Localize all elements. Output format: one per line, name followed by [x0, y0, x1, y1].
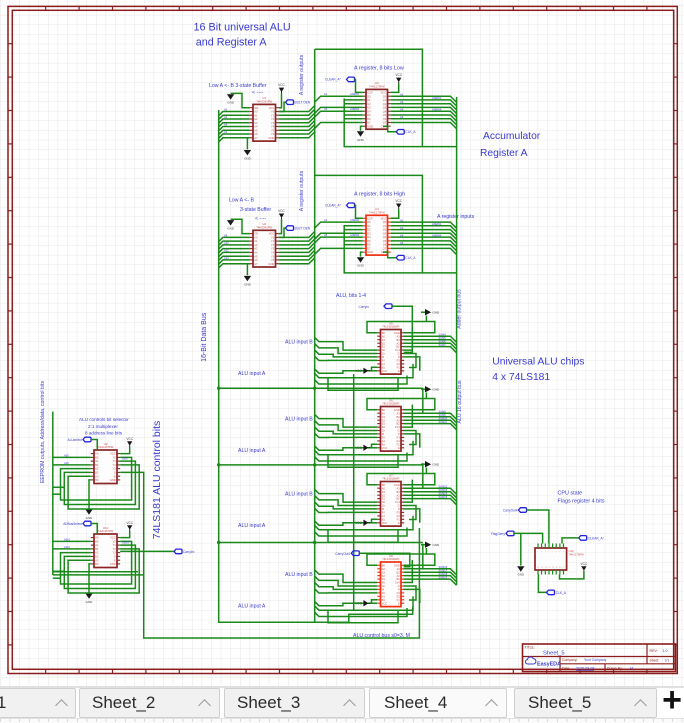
label A register — [354, 65, 404, 71]
svg-text:VCC: VCC — [382, 446, 388, 450]
net port CarryOut4 — [335, 551, 410, 567]
net port BU2T.OEN — [279, 226, 311, 238]
svg-text:GND: GND — [227, 101, 235, 105]
svg-text:A0: A0 — [382, 486, 386, 490]
svg-text:74HC273PW: 74HC273PW — [369, 84, 385, 88]
svg-text:A2: A2 — [254, 243, 258, 247]
svg-text:A5: A5 — [324, 233, 328, 237]
wire output bundle — [391, 222, 457, 255]
wire carry chain 3 — [217, 541, 423, 544]
svg-text:GND: GND — [86, 600, 94, 604]
svg-text:A1: A1 — [382, 362, 386, 366]
svg-text:GND: GND — [433, 388, 441, 392]
gnd flag — [85, 480, 93, 520]
svg-text:GND: GND — [268, 136, 274, 140]
wire sum outputs — [404, 569, 457, 586]
vcc flag — [355, 600, 377, 607]
wire box A high — [315, 175, 423, 273]
svg-text:S3: S3 — [382, 490, 386, 494]
svg-text:B3: B3 — [397, 570, 401, 574]
svg-text:SUM7: SUM7 — [439, 343, 447, 347]
svg-text:Y0: Y0 — [271, 236, 275, 240]
svg-text:Cn: Cn — [382, 352, 386, 356]
svg-text:D4: D4 — [367, 109, 371, 113]
svg-text:S0: S0 — [382, 348, 386, 352]
svg-text:ANEW4: ANEW4 — [350, 107, 360, 111]
net labels input — [224, 108, 228, 135]
svg-text:A1: A1 — [254, 239, 258, 243]
svg-text:B3: B3 — [397, 338, 401, 342]
svg-text:E: E — [398, 369, 400, 373]
svg-text:VCC: VCC — [382, 601, 388, 605]
svg-text:74LS181DWR: 74LS181DWR — [382, 402, 399, 406]
svg-text:GND: GND — [244, 157, 252, 161]
svg-text:SUM14: SUM14 — [439, 491, 448, 495]
gnd flag flags — [517, 533, 525, 576]
svg-text:D3: D3 — [367, 106, 371, 110]
svg-text:B0: B0 — [382, 331, 386, 335]
svg-text:SUM15: SUM15 — [439, 495, 448, 499]
svg-text:Cn: Cn — [382, 584, 386, 588]
svg-text:ANEW1: ANEW1 — [432, 96, 442, 100]
3-state buffer U2 — [250, 222, 279, 267]
svg-text:CLK_A: CLK_A — [556, 591, 567, 595]
svg-text:A0: A0 — [382, 567, 386, 571]
svg-text:A6: A6 — [254, 258, 258, 262]
net labels sum — [439, 484, 448, 498]
svg-text:SUM19: SUM19 — [439, 575, 448, 579]
svg-text:E: E — [398, 601, 400, 605]
svg-text:VCC: VCC — [278, 83, 285, 87]
svg-text:Cn: Cn — [382, 429, 386, 433]
wire left long pair — [53, 572, 144, 575]
svg-text:VCC: VCC — [395, 73, 402, 77]
net port CLK_A — [383, 126, 416, 134]
svg-text:Q3: Q3 — [383, 106, 387, 110]
svg-text:Cn4: Cn4 — [395, 348, 400, 352]
sheet tab 5 — [514, 688, 657, 718]
svg-text:A3: A3 — [95, 474, 99, 478]
svg-text:GND: GND — [227, 227, 235, 231]
wire carry chain 2 — [217, 463, 423, 466]
svg-text:S0: S0 — [382, 581, 386, 585]
svg-text:74LS181DWR: 74LS181DWR — [382, 325, 399, 329]
net port FlagCarry — [491, 531, 543, 543]
wire bundle buffer1 to A register low — [279, 96, 363, 138]
wire sum outputs — [404, 413, 457, 430]
svg-text:A010: A010 — [64, 537, 71, 541]
svg-text:Flags register 4 bits: Flags register 4 bits — [558, 499, 605, 505]
svg-text:VCC: VCC — [110, 536, 116, 540]
svg-text:CPU state: CPU state — [558, 491, 583, 497]
svg-text:Y1: Y1 — [113, 459, 117, 463]
wire mid bus vertical — [353, 374, 355, 610]
wire right nest — [404, 560, 420, 603]
svg-text:74HC273PW: 74HC273PW — [369, 210, 385, 214]
net port BU1T.OEN — [279, 100, 311, 112]
svg-text:B0: B0 — [95, 540, 99, 544]
svg-text:ALU input B: ALU input B — [285, 572, 313, 578]
wire bundle buffer2 to A register high — [279, 222, 363, 264]
svg-text:A110: A110 — [64, 545, 70, 549]
svg-text:B0: B0 — [382, 563, 386, 567]
svg-text:M: M — [382, 507, 384, 511]
svg-text:A2: A2 — [397, 574, 401, 578]
svg-text:A5: A5 — [254, 128, 258, 132]
svg-text:SUM8: SUM8 — [439, 409, 447, 413]
svg-text:A3: A3 — [397, 486, 401, 490]
svg-text:BU2T.OEN: BU2T.OEN — [295, 226, 311, 230]
wire sum outputs — [404, 488, 457, 505]
svg-text:A1: A1 — [324, 92, 328, 96]
svg-text:Y4: Y4 — [271, 125, 275, 129]
svg-text:A2: A2 — [95, 467, 99, 471]
svg-text:Y1: Y1 — [271, 239, 275, 243]
svg-text:Y6: Y6 — [271, 258, 275, 262]
svg-text:VCC: VCC — [110, 452, 116, 456]
svg-text:2: 2 — [541, 551, 542, 553]
svg-text:B1: B1 — [95, 547, 99, 551]
flags register U16 — [535, 544, 584, 575]
label A register — [354, 191, 405, 197]
svg-text:< ----: < ---- — [252, 90, 264, 96]
net port CLK_A flags — [538, 575, 566, 595]
vcc flag — [355, 445, 377, 451]
label ALU 16 output bus — [457, 380, 463, 423]
label ALU input A — [238, 604, 266, 610]
wire carry chain 1 — [217, 387, 423, 390]
svg-text:G: G — [398, 352, 400, 356]
net labels output — [400, 218, 442, 245]
svg-text:74HC157PW: 74HC157PW — [98, 529, 114, 533]
svg-text:ALU input A: ALU input A — [238, 523, 266, 529]
svg-text:B2: B2 — [397, 577, 401, 581]
svg-text:A2: A2 — [400, 100, 404, 104]
svg-text:GND: GND — [394, 483, 400, 487]
svg-text:CLEAR_A*: CLEAR_A* — [325, 204, 342, 208]
svg-text:ALU input B: ALU input B — [285, 417, 313, 423]
svg-text:2025-08-08: 2025-08-08 — [576, 666, 594, 670]
svg-text:EasyEDA: EasyEDA — [537, 662, 561, 668]
svg-text:2:1 multiplexer: 2:1 multiplexer — [88, 424, 118, 429]
label ALU input A — [238, 523, 266, 529]
wire feedback loops — [61, 541, 140, 593]
svg-text:Universal ALU chips: Universal ALU chips — [492, 356, 584, 367]
wire carry drop — [404, 388, 423, 413]
svg-text:VCC: VCC — [381, 216, 387, 220]
label A register outputs 1 — [299, 54, 305, 95]
svg-text:TITLE:: TITLE: — [525, 646, 535, 650]
svg-text:A5: A5 — [324, 107, 328, 111]
svg-text:A19: A19 — [64, 461, 69, 465]
svg-text:Y1: Y1 — [113, 543, 117, 547]
svg-text:Q1: Q1 — [383, 224, 387, 228]
svg-text:S2: S2 — [382, 493, 386, 497]
svg-text:G: G — [398, 429, 400, 433]
svg-text:A1: A1 — [382, 594, 386, 598]
sheet tab 1 — [0, 688, 76, 718]
net labels — [64, 537, 130, 549]
vcc flag — [355, 520, 377, 527]
wire left stubs — [53, 541, 91, 578]
svg-text:D7: D7 — [367, 247, 371, 251]
svg-text:GND: GND — [268, 262, 274, 266]
svg-text:EEPROM outputs, Address/data,: EEPROM outputs, Address/data, control bi… — [40, 381, 46, 483]
svg-text:CLK_A: CLK_A — [405, 256, 416, 260]
svg-text:B0: B0 — [382, 408, 386, 412]
wire input bundle — [219, 112, 250, 143]
svg-text:ALU input B: ALU input B — [285, 492, 313, 498]
svg-text:SUM17: SUM17 — [439, 568, 448, 572]
vcc flag — [391, 73, 403, 92]
svg-text:OE9: OE9 — [122, 457, 128, 461]
svg-text:D1: D1 — [367, 98, 371, 102]
svg-text:GND: GND — [394, 408, 400, 412]
svg-text:Company:: Company: — [562, 658, 578, 662]
svg-text:10: 10 — [559, 567, 561, 569]
wire feedback loops — [61, 457, 140, 509]
net labels sum — [439, 409, 448, 423]
svg-text:A1: A1 — [382, 514, 386, 518]
svg-text:VCC: VCC — [269, 232, 275, 236]
label A register outputs 2 — [299, 170, 305, 211]
net port CarryIn left — [120, 549, 194, 554]
svg-text:CarryInI: CarryInI — [183, 550, 194, 554]
wire carry drop — [404, 544, 423, 569]
svg-text:VCC: VCC — [355, 369, 362, 373]
svg-text:SUM16: SUM16 — [439, 565, 448, 569]
svg-text:1: 1 — [537, 551, 538, 553]
svg-text:SUM13: SUM13 — [439, 488, 448, 492]
svg-text:GND: GND — [517, 573, 525, 577]
svg-text:S3: S3 — [382, 570, 386, 574]
svg-text:CLR: CLR — [367, 216, 372, 220]
svg-text:8: 8 — [563, 551, 564, 553]
svg-text:VCC: VCC — [382, 521, 388, 525]
svg-text:Y3: Y3 — [271, 247, 275, 251]
svg-text:M: M — [382, 355, 384, 359]
ALU U5 — [377, 321, 404, 374]
svg-text:D2: D2 — [367, 228, 371, 232]
svg-text:GND: GND — [357, 138, 365, 142]
svg-text:5: 5 — [552, 551, 553, 553]
add sheet button — [660, 688, 684, 716]
svg-text:VCC: VCC — [382, 369, 388, 373]
svg-text:S1: S1 — [382, 497, 386, 501]
svg-text:8 address line bits: 8 address line bits — [85, 431, 123, 436]
svg-text:A2: A2 — [397, 341, 401, 345]
svg-text:Q7: Q7 — [383, 247, 387, 251]
svg-text:D3: D3 — [367, 231, 371, 235]
svg-text:S: S — [114, 471, 116, 475]
label ALU input A — [238, 371, 266, 377]
svg-text:Y2: Y2 — [271, 243, 275, 247]
svg-text:SUM6: SUM6 — [439, 339, 447, 343]
wire right nest — [404, 480, 420, 523]
gnd flag — [421, 309, 440, 322]
svg-text:A6: A6 — [400, 115, 404, 119]
svg-text:A09: A09 — [64, 453, 69, 457]
label 16-Bit Data Bus — [201, 312, 208, 362]
svg-text:D6: D6 — [367, 117, 371, 121]
svg-text:A0: A0 — [382, 334, 386, 338]
label ALU input A — [238, 448, 266, 454]
svg-text:A6: A6 — [254, 132, 258, 136]
svg-text:Date:: Date: — [562, 666, 570, 670]
svg-text:A4: A4 — [400, 107, 404, 111]
svg-text:ADBusSelect: ADBusSelect — [63, 522, 82, 526]
svg-text:B1: B1 — [382, 598, 386, 602]
svg-text:Cn4: Cn4 — [395, 500, 400, 504]
gnd flag left — [227, 93, 250, 107]
svg-text:B3: B3 — [397, 490, 401, 494]
svg-text:Q3: Q3 — [383, 231, 387, 235]
svg-text:SUM12: SUM12 — [439, 484, 448, 488]
svg-text:S2: S2 — [382, 418, 386, 422]
svg-text:U16: U16 — [569, 549, 575, 553]
A register U4 — [363, 207, 391, 255]
svg-text:M: M — [630, 666, 633, 670]
wire B inputs — [315, 570, 378, 593]
A register U3 — [363, 81, 391, 129]
svg-text:ALUselect: ALUselect — [67, 438, 82, 442]
svg-text:A2: A2 — [254, 117, 258, 121]
label CPU state — [558, 491, 605, 505]
svg-text:A3: A3 — [254, 121, 258, 125]
svg-text:Adder output bus: Adder output bus — [457, 289, 463, 329]
svg-text:D2: D2 — [367, 102, 371, 106]
svg-text:A0: A0 — [95, 536, 99, 540]
svg-text:GND: GND — [367, 250, 373, 254]
sheet tab 4 — [369, 688, 507, 718]
svg-text:D5: D5 — [367, 113, 371, 117]
wire box A low bottom — [344, 98, 456, 146]
svg-text:16-Bit Data Bus: 16-Bit Data Bus — [201, 312, 208, 362]
label ALU control bus — [353, 633, 410, 639]
gnd flag — [421, 461, 440, 474]
svg-text:9: 9 — [563, 567, 564, 569]
svg-text:Q4: Q4 — [383, 109, 387, 113]
svg-text:G: G — [398, 504, 400, 508]
svg-text:B2: B2 — [95, 555, 99, 559]
svg-text:GND: GND — [86, 516, 94, 520]
svg-text:A5: A5 — [254, 254, 258, 258]
wire A inputs — [315, 441, 413, 467]
svg-text:A register inputs: A register inputs — [437, 214, 475, 220]
svg-text:Cn: Cn — [382, 504, 386, 508]
net port CLEAR_A right — [562, 536, 605, 544]
svg-text:ANEW4: ANEW4 — [432, 233, 442, 237]
svg-text:1/1: 1/1 — [665, 658, 670, 662]
svg-text:GND: GND — [394, 563, 400, 567]
svg-text:A0: A0 — [254, 236, 258, 240]
svg-text:A7: A7 — [254, 262, 258, 266]
svg-text:Q2: Q2 — [383, 228, 387, 232]
svg-text:Q6: Q6 — [383, 243, 387, 247]
svg-text:A4: A4 — [254, 125, 258, 129]
label ALU input B — [285, 572, 313, 578]
net labels — [64, 453, 128, 465]
svg-text:ANEW4: ANEW4 — [432, 107, 442, 111]
net labels input — [224, 234, 229, 261]
svg-text:16: 16 — [537, 567, 539, 569]
svg-text:VCC: VCC — [126, 437, 133, 441]
svg-text:D4: D4 — [367, 235, 371, 239]
svg-text:A1: A1 — [95, 543, 99, 547]
net labels A register in — [324, 92, 360, 111]
gnd flag left — [227, 219, 250, 233]
svg-text:ALU input B: ALU input B — [285, 340, 313, 346]
svg-text:M: M — [382, 588, 384, 592]
svg-text:CLEAR_A*: CLEAR_A* — [588, 536, 605, 540]
gnd flag — [85, 564, 93, 604]
title block — [523, 644, 676, 672]
net port CLEAR_A — [325, 77, 363, 92]
wire control bus bottom — [144, 528, 420, 638]
svg-text:SUM5: SUM5 — [439, 336, 447, 340]
svg-text:B1: B1 — [382, 365, 386, 369]
svg-text:A12: A12 — [224, 249, 229, 253]
svg-text:A14: A14 — [224, 256, 229, 260]
svg-text:S2: S2 — [382, 574, 386, 578]
svg-text:GND: GND — [433, 543, 441, 547]
svg-text:14: 14 — [545, 567, 547, 569]
ALU U6 — [377, 398, 404, 451]
wire EEPROM bus vertical — [52, 412, 54, 575]
svg-text:A1: A1 — [382, 439, 386, 443]
svg-text:GND: GND — [433, 463, 441, 467]
svg-text:16 Bit universal ALU: 16 Bit universal ALU — [194, 21, 291, 33]
svg-text:ALU input A: ALU input A — [238, 371, 266, 377]
gnd flag — [357, 252, 365, 268]
svg-text:GND: GND — [110, 478, 116, 482]
vcc flag — [120, 521, 134, 538]
wire right nest — [404, 405, 420, 448]
svg-text:Y5: Y5 — [271, 128, 275, 132]
wire box A low — [315, 49, 423, 146]
svg-text:A6: A6 — [224, 130, 228, 134]
svg-text:ANEW0: ANEW0 — [350, 218, 360, 222]
label EEPROM outputs — [40, 381, 46, 483]
svg-text:4: 4 — [548, 551, 549, 553]
svg-text:B3: B3 — [95, 478, 99, 482]
svg-text:D5: D5 — [367, 239, 371, 243]
net labels output — [400, 92, 442, 119]
vcc flag flags — [560, 562, 588, 579]
gnd flag — [357, 126, 365, 142]
label 74LS181 ALU control bits — [151, 421, 163, 540]
svg-text:A0: A0 — [95, 452, 99, 456]
ALU U7 — [377, 473, 404, 526]
wire top hat — [367, 554, 435, 565]
svg-text:Cn4: Cn4 — [395, 581, 400, 585]
svg-text:Register A: Register A — [480, 148, 528, 159]
svg-text:VCC: VCC — [355, 446, 362, 450]
svg-text:7: 7 — [559, 551, 560, 553]
svg-text:OE10: OE10 — [122, 541, 130, 545]
canvas bottom edge — [0, 686, 684, 688]
svg-text:VCC: VCC — [395, 199, 402, 203]
wire A inputs — [315, 596, 413, 622]
svg-text:B2: B2 — [397, 497, 401, 501]
svg-text:A4: A4 — [254, 251, 258, 255]
vcc flag — [120, 437, 134, 454]
svg-text:REV:: REV: — [650, 649, 658, 653]
svg-text:B3: B3 — [95, 562, 99, 566]
net port CLEAR_A — [325, 203, 363, 218]
ALU U8 — [377, 554, 404, 607]
svg-text:Y1: Y1 — [271, 113, 275, 117]
